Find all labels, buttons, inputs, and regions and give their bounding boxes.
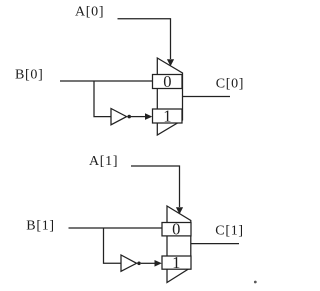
svg-text:0: 0 (172, 220, 180, 239)
svg-text:1: 1 (172, 253, 180, 272)
svg-text:C[0]: C[0] (216, 77, 244, 92)
svg-text:C[1]: C[1] (215, 224, 243, 239)
svg-text:A[0]: A[0] (75, 5, 104, 20)
svg-text:A[1]: A[1] (89, 154, 118, 169)
svg-text:B[1]: B[1] (26, 218, 54, 233)
svg-text:B[0]: B[0] (15, 68, 43, 83)
svg-text:0: 0 (163, 72, 171, 91)
svg-text:1: 1 (163, 107, 171, 126)
